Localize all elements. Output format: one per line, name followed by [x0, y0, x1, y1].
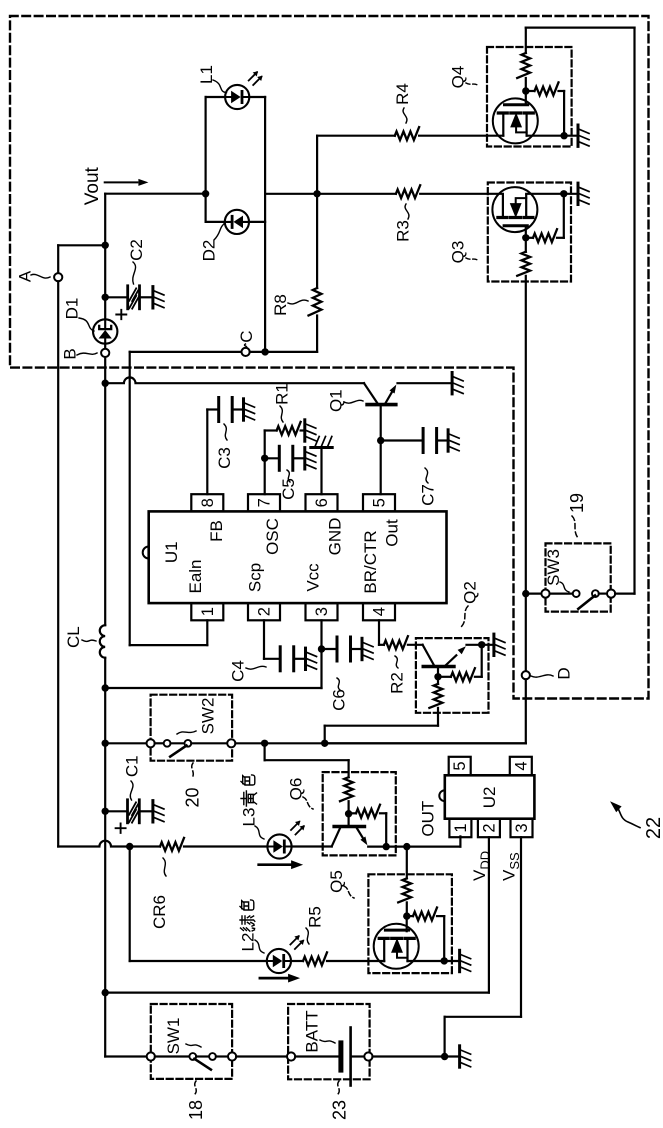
svg-text:C2: C2	[127, 239, 146, 261]
svg-text:R3: R3	[394, 220, 413, 242]
svg-text:OUT: OUT	[418, 801, 437, 837]
svg-text:Q5: Q5	[327, 870, 346, 893]
svg-text:R4: R4	[393, 83, 412, 105]
svg-text:3: 3	[513, 823, 531, 832]
svg-text:5: 5	[451, 761, 469, 770]
svg-text:C1: C1	[123, 755, 142, 777]
svg-text:U2: U2	[480, 787, 499, 809]
svg-text:SW1: SW1	[164, 1018, 183, 1055]
svg-text:SW3: SW3	[544, 549, 563, 586]
svg-text:6: 6	[313, 498, 331, 507]
svg-text:Scp: Scp	[246, 563, 265, 592]
svg-text:23: 23	[329, 1100, 349, 1120]
svg-text:OSC: OSC	[263, 518, 282, 555]
svg-text:R8: R8	[271, 294, 290, 316]
svg-text:Q4: Q4	[449, 66, 468, 89]
svg-text:2: 2	[480, 823, 498, 832]
svg-text:R2: R2	[388, 672, 407, 694]
svg-text:C7: C7	[419, 484, 438, 506]
svg-text:20: 20	[183, 787, 203, 807]
svg-text:19: 19	[567, 493, 587, 513]
svg-text:SW2: SW2	[198, 698, 217, 735]
svg-text:1: 1	[452, 823, 470, 832]
svg-text:C4: C4	[229, 660, 248, 682]
svg-text:2: 2	[256, 607, 274, 616]
svg-text:L2: L2	[239, 933, 258, 952]
svg-text:C6: C6	[330, 689, 349, 711]
svg-text:U1: U1	[162, 541, 181, 563]
svg-text:FB: FB	[207, 520, 226, 542]
svg-text:BATT: BATT	[303, 1010, 322, 1052]
svg-text:D1: D1	[63, 298, 82, 320]
svg-text:8: 8	[199, 498, 217, 507]
svg-text:Out: Out	[383, 519, 402, 547]
svg-text:Vout: Vout	[82, 166, 103, 205]
svg-text:22: 22	[643, 817, 663, 839]
svg-text:C: C	[237, 330, 256, 342]
svg-text:L1: L1	[197, 65, 216, 84]
svg-text:5: 5	[371, 498, 389, 507]
svg-text:R5: R5	[305, 906, 324, 928]
svg-text:R1: R1	[272, 383, 291, 405]
svg-text:Q2: Q2	[461, 581, 480, 604]
svg-text:D2: D2	[199, 240, 218, 262]
svg-text:BR/CTR: BR/CTR	[361, 530, 380, 593]
svg-text:D: D	[555, 667, 574, 679]
svg-text:GND: GND	[326, 518, 345, 556]
svg-text:7: 7	[256, 498, 274, 507]
svg-text:3: 3	[313, 607, 331, 616]
svg-text:Ealn: Ealn	[186, 559, 205, 593]
svg-text:18: 18	[186, 1100, 206, 1120]
svg-text:4: 4	[512, 761, 530, 770]
svg-text:Q3: Q3	[449, 241, 468, 264]
svg-text:4: 4	[371, 607, 389, 616]
svg-text:1: 1	[199, 607, 217, 616]
svg-text:Vcc: Vcc	[304, 563, 323, 592]
svg-text:A: A	[16, 270, 35, 282]
svg-text:Q1: Q1	[327, 389, 346, 412]
svg-text:C3: C3	[215, 447, 234, 469]
svg-text:B: B	[61, 348, 80, 359]
svg-text:L3: L3	[240, 808, 259, 827]
svg-text:CR6: CR6	[150, 895, 169, 929]
svg-text:CL: CL	[64, 626, 83, 648]
